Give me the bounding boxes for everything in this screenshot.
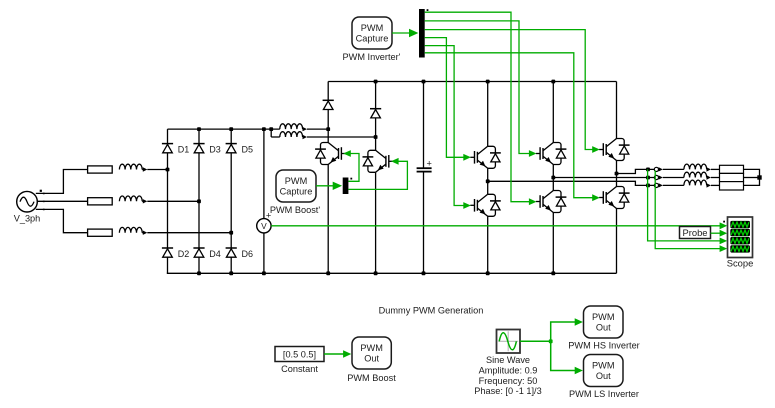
svg-text:PWM: PWM — [285, 176, 307, 186]
svg-text:PWM: PWM — [592, 312, 614, 322]
voltage source V_3ph — [17, 190, 42, 212]
label V_3ph — [14, 214, 41, 224]
diode D6 — [226, 248, 237, 257]
node top bus cap — [422, 80, 426, 84]
pwm out LS block — [584, 355, 624, 387]
wire source phase c — [36, 209, 88, 232]
svg-text:Out: Out — [596, 322, 611, 332]
wire dc top bus — [328, 81, 616, 83]
svg-text:[0.5 0.5]: [0.5 0.5] — [283, 350, 316, 360]
diode D7 — [323, 100, 334, 109]
svg-text:+: + — [427, 159, 432, 169]
wire gate signal boost2 — [348, 158, 407, 190]
wire probe tap B — [655, 170, 727, 252]
inductor load 1 — [684, 164, 720, 172]
svg-text:Dummy PWM Generation: Dummy PWM Generation — [379, 306, 484, 316]
node bottom rail boost1 — [326, 271, 330, 275]
svg-text:PWM Inverter': PWM Inverter' — [343, 52, 401, 62]
svg-text:Probe: Probe — [682, 227, 707, 238]
inductor phase c — [119, 227, 231, 235]
wire bridge leg 2 — [198, 129, 200, 273]
wire boost leg2 — [375, 82, 377, 274]
resistor phase c — [88, 229, 113, 236]
wire source phase b — [37, 200, 87, 202]
label PWM Boost gen — [347, 373, 396, 383]
wire gate signal HS1 — [425, 38, 471, 161]
inductor load 2 — [684, 172, 720, 180]
svg-text:Amplitude: 0.9: Amplitude: 0.9 — [479, 366, 538, 376]
pwm out boost block — [352, 337, 391, 369]
wire branch to LS — [551, 341, 583, 374]
node bottom rail leg2 — [551, 271, 555, 275]
pwm out HS block — [584, 306, 624, 338]
svg-text:D1: D1 — [178, 144, 190, 154]
node boost L1 junction — [326, 127, 330, 131]
scope block — [723, 217, 752, 258]
transistor inverter LS2 — [536, 191, 567, 213]
svg-text:Capture: Capture — [356, 33, 389, 43]
node split junction — [269, 127, 273, 131]
constant block — [275, 347, 324, 362]
wire phase out 2 — [553, 177, 654, 179]
wire inverter leg 3 — [616, 82, 618, 274]
svg-text:D2: D2 — [178, 249, 190, 259]
demux bus bar inverter — [419, 9, 428, 58]
demux bus bar boost — [343, 178, 352, 195]
wire inverter leg 2 — [552, 82, 554, 274]
wire capture to boost bar — [316, 182, 342, 190]
wire bridge leg 1 — [167, 129, 169, 273]
wire Vdc signal — [271, 222, 727, 229]
label D5 — [242, 144, 254, 154]
wire gate signal LS3 — [425, 53, 600, 201]
wire inverter leg 1 — [487, 82, 489, 274]
diode D5 — [226, 144, 237, 153]
pwm capture boost block — [276, 170, 316, 202]
diode D3 — [193, 144, 204, 153]
wire source phase a — [36, 170, 88, 194]
node top rail voltmeter — [262, 127, 266, 131]
inductor phase b — [119, 196, 199, 204]
resistor phase a — [88, 166, 113, 173]
svg-text:Phase: [0 -1 1]/3: Phase: [0 -1 1]/3 — [474, 386, 541, 396]
svg-text:Sine Wave: Sine Wave — [486, 355, 530, 365]
node probe tap 2 — [646, 176, 650, 180]
svg-text:Out: Out — [596, 371, 611, 381]
transistor boost Q2 — [363, 150, 394, 172]
wire bridge leg 3 — [230, 129, 232, 273]
node boost L2 junction — [374, 135, 378, 139]
wire gate signal HS3 — [425, 30, 600, 153]
svg-text:D4: D4 — [209, 249, 221, 259]
wire gate signal LS2 — [425, 12, 537, 205]
svg-text:V: V — [261, 221, 267, 231]
svg-text:PWM: PWM — [360, 343, 382, 353]
node phase c junction — [229, 231, 233, 235]
svg-text:PWM Boost: PWM Boost — [347, 373, 396, 383]
node bottom rail leg1 — [486, 271, 490, 275]
node inverter mid 2 — [551, 176, 555, 180]
svg-text:D5: D5 — [242, 144, 254, 154]
wire gate signal LS1 — [425, 46, 471, 209]
resistor phase b — [88, 198, 113, 205]
transistor inverter LS3 — [599, 187, 630, 209]
svg-text:Out: Out — [364, 353, 379, 363]
svg-text:Constant: Constant — [281, 364, 318, 374]
inductor boost L1 — [280, 124, 328, 132]
node load star — [757, 175, 761, 179]
wire bridge bottom rail — [167, 272, 617, 274]
ammeter phase 2 — [654, 175, 684, 179]
transistor boost Q1 — [315, 143, 346, 165]
wire phase out 1 — [617, 169, 655, 173]
diode D2 — [162, 248, 173, 257]
wire phase out 3 — [488, 181, 655, 185]
capacitor C1 — [417, 82, 432, 274]
node top bus leg1 — [486, 80, 490, 84]
svg-text:PWM Boost': PWM Boost' — [270, 205, 320, 215]
node bottom rail voltmeter — [262, 271, 266, 275]
sine wave block — [497, 330, 521, 354]
source terminal ticks — [43, 193, 45, 211]
wire probe to scope — [711, 230, 728, 237]
wire gate signal boost1 — [343, 150, 359, 181]
svg-text:Scope: Scope — [727, 257, 754, 268]
node inverter mid 1 — [486, 179, 490, 183]
svg-text:Frequency: 50: Frequency: 50 — [479, 376, 538, 386]
label PWM LS Inverter — [569, 389, 639, 399]
label Dummy PWM Generation — [379, 306, 484, 316]
voltmeter Vdc — [257, 210, 271, 233]
node bottom rail cap — [422, 271, 426, 275]
label Sine Wave — [474, 355, 541, 396]
label PWM HS Inverter — [568, 341, 639, 351]
label D1 — [178, 144, 190, 154]
node top rail D5 — [229, 127, 233, 131]
inductor load 3 — [684, 180, 720, 188]
node probe tap 3 — [646, 184, 650, 188]
node sine branch — [549, 339, 553, 343]
svg-text:PWM: PWM — [361, 23, 383, 33]
node bottom rail boost2 — [374, 271, 378, 275]
node bottom rail D6 — [229, 271, 233, 275]
ammeter phase 3 — [654, 183, 684, 187]
node phase a junction — [166, 168, 170, 172]
node bottom rail D4 — [197, 271, 201, 275]
label D3 — [209, 144, 221, 154]
svg-text:PWM LS Inverter: PWM LS Inverter — [569, 389, 639, 399]
svg-text:PWM HS Inverter: PWM HS Inverter — [568, 341, 639, 351]
label D4 — [209, 249, 221, 259]
wire gate signal HS2 — [425, 21, 537, 157]
label PWM Boost — [270, 205, 320, 215]
svg-text:PWM: PWM — [592, 361, 614, 371]
load block R — [720, 165, 744, 190]
label Constant — [281, 364, 318, 374]
node inverter mid 3 — [615, 172, 619, 176]
probe block — [680, 227, 711, 239]
transistor inverter HS2 — [536, 143, 567, 165]
wire sine to branch — [520, 340, 551, 342]
wire boost leg1 — [327, 82, 329, 274]
wire branch to HS — [551, 318, 583, 341]
svg-text:V_3ph: V_3ph — [14, 214, 41, 224]
pwm capture inverter block — [352, 17, 392, 49]
label PWM Inverter — [343, 52, 401, 62]
node phase b junction — [197, 199, 201, 203]
svg-text:D3: D3 — [209, 144, 221, 154]
wire voltmeter rail — [263, 129, 265, 273]
label D2 — [178, 249, 190, 259]
node top bus leg2 — [551, 80, 555, 84]
inductor boost L2 — [271, 132, 375, 140]
wire load star — [744, 169, 760, 185]
transistor inverter LS1 — [470, 194, 501, 216]
transistor inverter HS3 — [599, 139, 630, 161]
label D6 — [242, 249, 254, 259]
svg-text:Capture: Capture — [280, 186, 313, 196]
node probe tap 1 — [646, 168, 650, 172]
diode D4 — [193, 248, 204, 257]
transistor inverter HS1 — [470, 146, 501, 168]
ammeter phase 1 — [654, 167, 684, 171]
inductor phase a — [119, 164, 167, 172]
wire probe tap A — [648, 169, 728, 244]
wire bridge top rail — [168, 128, 280, 130]
wire capture to bus bar — [392, 29, 418, 37]
node top rail D3 — [197, 127, 201, 131]
svg-text:D6: D6 — [242, 249, 254, 259]
wire constant to pwm out — [324, 350, 351, 358]
diode D8 — [370, 109, 381, 118]
diode D1 — [162, 144, 173, 153]
node top bus D8 — [374, 80, 378, 84]
label Scope — [727, 257, 754, 268]
wire split drop — [270, 129, 272, 137]
